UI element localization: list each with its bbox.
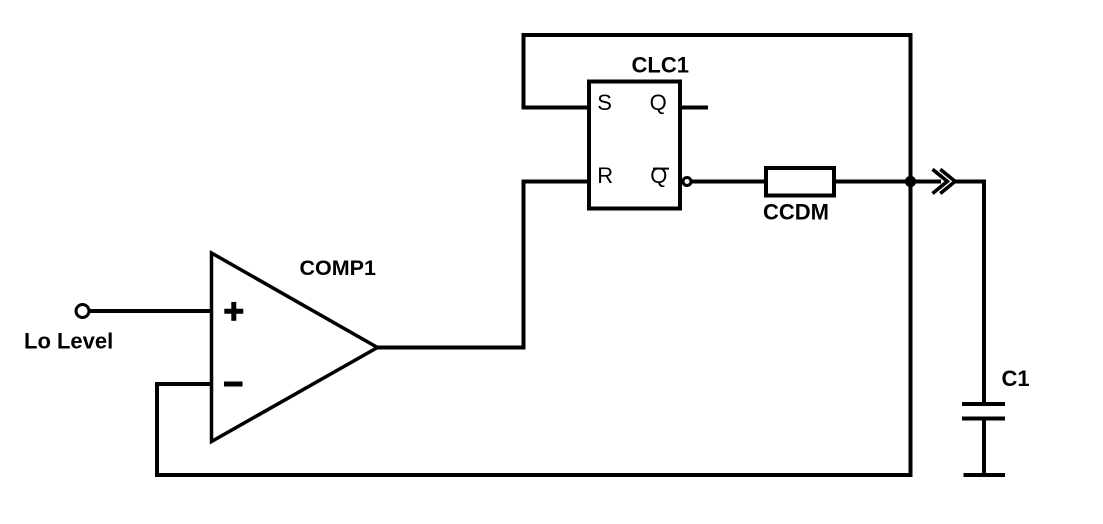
svg-text:C1: C1 bbox=[1002, 366, 1030, 391]
svg-text:COMP1: COMP1 bbox=[300, 256, 377, 280]
svg-text:CCDM: CCDM bbox=[763, 200, 829, 225]
svg-text:S: S bbox=[597, 90, 612, 115]
svg-text:CLC1: CLC1 bbox=[632, 52, 689, 77]
svg-text:Q: Q bbox=[650, 90, 667, 115]
svg-text:R: R bbox=[597, 163, 613, 188]
svg-text:Lo Level: Lo Level bbox=[24, 329, 113, 354]
svg-text:Q: Q bbox=[650, 163, 667, 188]
